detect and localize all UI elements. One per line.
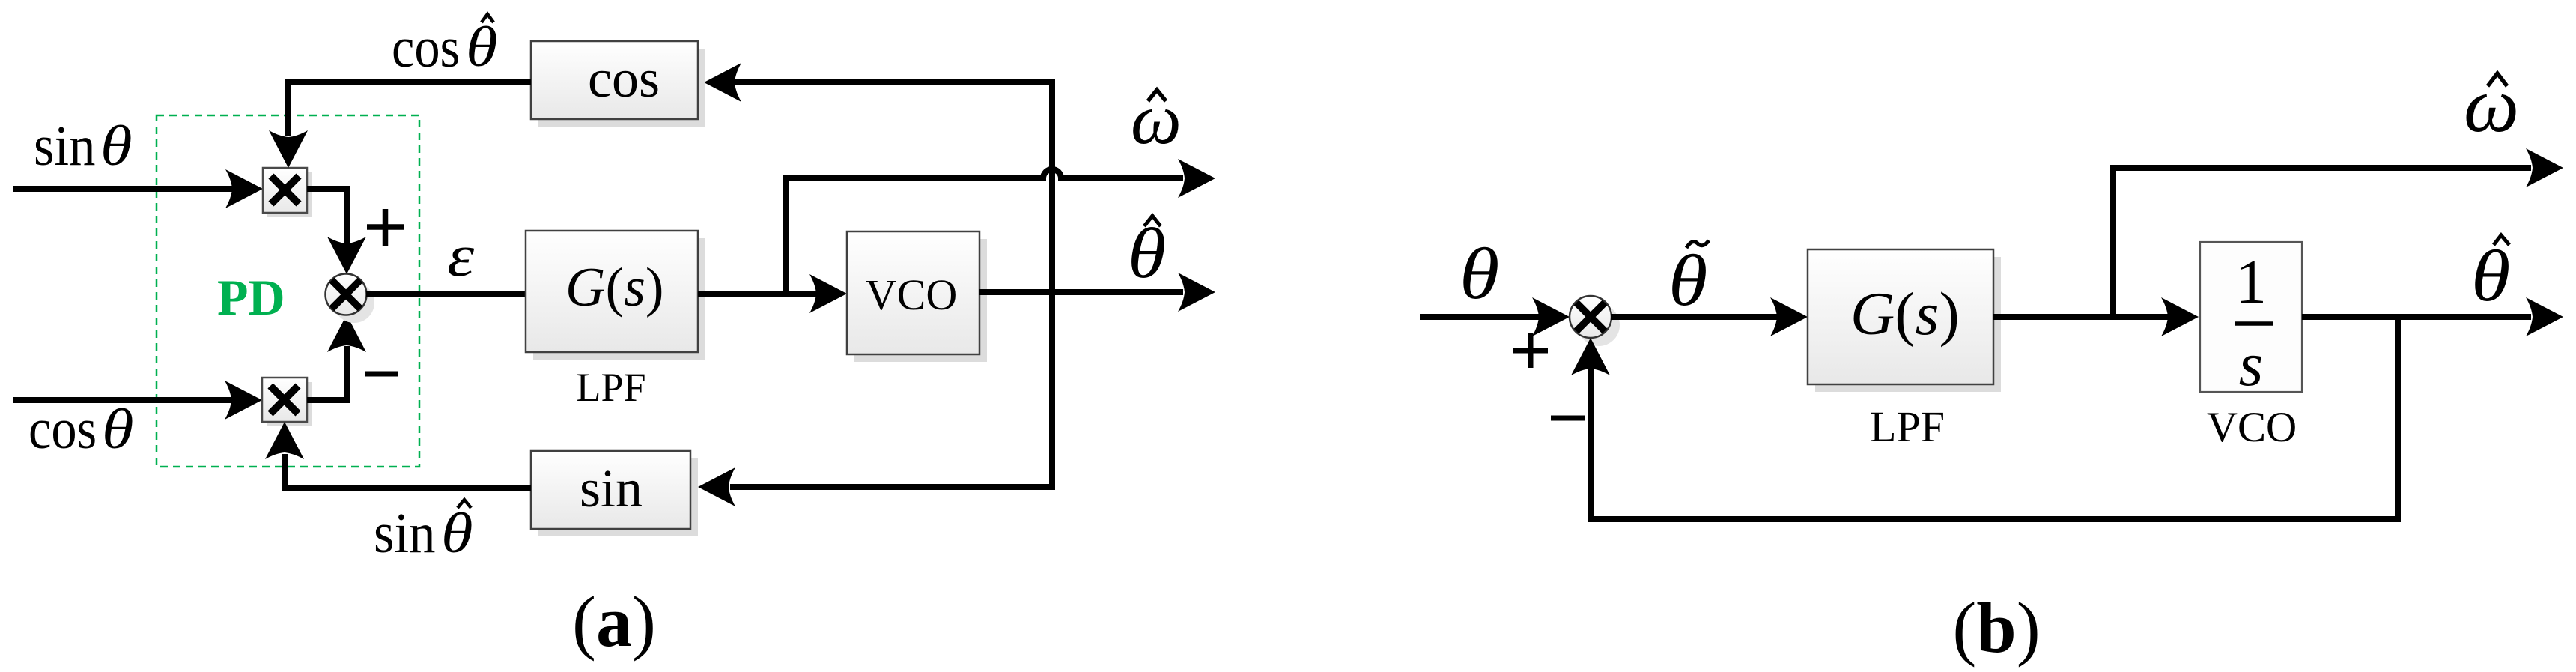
- wire summer to G(s): [366, 291, 526, 297]
- label plus: [367, 209, 404, 246]
- block 1/s VCO: [2200, 242, 2302, 399]
- wire branch to omega output (b): [2113, 168, 2531, 320]
- svg-text:1: 1: [2235, 247, 2267, 317]
- svg-text:cos: cos: [392, 16, 460, 79]
- wire feedback loop (b): [1591, 317, 2398, 519]
- wire M2 output to summer: [307, 346, 347, 400]
- svg-text:PD: PD: [217, 269, 285, 326]
- wire feedback vertical with top and bottom runs: [730, 82, 1052, 487]
- svg-text:θ: θ: [466, 15, 498, 79]
- svg-text:VCO: VCO: [2207, 404, 2297, 451]
- block G(s) LPF (b): [1808, 249, 2001, 392]
- wire sin-theta input: [13, 186, 236, 192]
- wire sin block to M2: [285, 454, 531, 488]
- svg-text:G(s): G(s): [1850, 279, 1960, 348]
- wire theta input: [1420, 314, 1543, 320]
- wire cos-theta input: [13, 397, 235, 403]
- block G(s) LPF: [526, 231, 705, 360]
- multiplier M1: [263, 168, 312, 217]
- svg-text:LPF: LPF: [1870, 402, 1945, 451]
- svg-text:θ: θ: [2471, 236, 2510, 316]
- wire G(s) to 1/s: [1993, 314, 2170, 320]
- label minus (b): [1551, 416, 1585, 421]
- svg-text:cos: cos: [588, 49, 660, 109]
- wire M1 output to summer: [307, 189, 347, 243]
- multiplier M2: [262, 378, 312, 426]
- svg-text:ε: ε: [447, 223, 474, 289]
- wire G(s) to VCO: [698, 291, 818, 297]
- svg-text:ω: ω: [2464, 61, 2519, 148]
- label plus (b): [1513, 333, 1548, 368]
- svg-text:VCO: VCO: [866, 270, 957, 319]
- svg-text:θ: θ: [441, 501, 473, 565]
- block cos: [531, 41, 705, 127]
- svg-text:s: s: [2239, 330, 2264, 399]
- svg-text:θ: θ: [102, 397, 134, 461]
- svg-text:LPF: LPF: [576, 365, 645, 410]
- svg-text:θ: θ: [100, 114, 133, 178]
- block sin: [531, 451, 698, 536]
- svg-text:(b): (b): [1952, 587, 2040, 668]
- svg-text:θ: θ: [1668, 240, 1707, 321]
- svg-text:θ: θ: [1459, 234, 1499, 314]
- summer S1: [326, 274, 375, 324]
- svg-text:sin: sin: [580, 458, 643, 518]
- wire 1/s to theta output (b): [2302, 314, 2531, 320]
- svg-text:G(s): G(s): [565, 257, 664, 318]
- svg-text:sin: sin: [34, 115, 95, 178]
- svg-text:(a): (a): [572, 581, 656, 662]
- svg-text:cos: cos: [28, 398, 97, 461]
- svg-text:sin: sin: [374, 502, 435, 565]
- PD dashed box: [157, 115, 419, 467]
- wire branch to omega output with hop: [786, 169, 1183, 297]
- wire cos block to M1: [288, 82, 531, 136]
- wire summer to G(s) (b): [1611, 314, 1779, 320]
- block VCO: [847, 231, 987, 362]
- wire VCO to theta output: [979, 289, 1183, 295]
- label minus: [365, 372, 398, 377]
- summer S2: [1570, 296, 1620, 346]
